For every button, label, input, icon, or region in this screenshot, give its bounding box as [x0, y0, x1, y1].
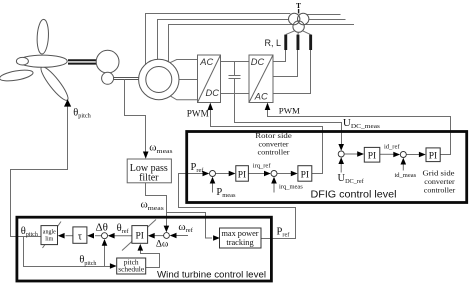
blade B2 (left)	[0, 68, 34, 83]
PI controller PI4	[426, 148, 440, 162]
svg-text:Wind turbine control level: Wind turbine control level	[157, 270, 266, 281]
wire: theta_pitch feedback from control box to blade pitch actuator	[11, 104, 68, 237]
summing junction S6 speed error	[164, 233, 170, 239]
time constant block tau	[73, 227, 87, 243]
arrow S3 to PI3	[357, 151, 364, 157]
svg-text:filter: filter	[139, 172, 159, 183]
arrow P_ref into S1	[203, 171, 210, 177]
svg-text:AC: AC	[199, 57, 213, 67]
PI controller PI5 pitch	[132, 226, 148, 244]
svg-text:DC: DC	[251, 57, 265, 67]
choke L3	[309, 35, 312, 50]
arrow theta_ref into S5	[108, 233, 115, 239]
blade B1 (top)	[36, 19, 49, 54]
summing junction S3 DC voltage	[338, 151, 344, 157]
DFIG control level box	[187, 132, 467, 203]
wire: pitch feedback line and branch to S5	[24, 237, 111, 267]
wire: grid phase b right bus	[309, 19, 346, 21]
summing junction S1 power	[210, 171, 216, 177]
wire: stator phase c to transformer	[169, 25, 294, 63]
arrow id_meas into S4	[401, 158, 407, 165]
summing junction S4 grid current	[400, 152, 406, 158]
arrow feedback into pitch schedule	[110, 263, 117, 269]
wire: transformer to choke c	[303, 31, 311, 35]
wire: theta_ref PI5 to S5	[115, 235, 132, 237]
PI controller PI1	[236, 166, 249, 182]
wire: high speed shaft gearbox to generator	[112, 78, 140, 80]
arrow PI1 to S2	[264, 171, 271, 177]
svg-text:PI: PI	[301, 170, 309, 180]
svg-text:AC: AC	[254, 92, 268, 102]
wire: stator phase b to transformer	[158, 20, 289, 60]
summing junction S2 rotor current	[271, 171, 277, 177]
wire: grid phase a right bus	[307, 14, 340, 16]
max power tracking block	[220, 228, 262, 248]
low pass filter box	[127, 159, 171, 183]
svg-text:Δθ: Δθ	[96, 222, 108, 234]
gearbox wheel small	[102, 72, 114, 84]
arrow into low pass filter	[143, 152, 149, 159]
svg-text:irq_meas: irq_meas	[279, 184, 303, 191]
svg-text:T: T	[296, 1, 301, 10]
wire: PI1 to S2	[248, 173, 265, 175]
wire: PI3 to S4	[380, 153, 395, 155]
arrow S5 to tau	[87, 233, 94, 239]
arrow pitch feedback into S5	[102, 239, 108, 246]
arrow U_DC_meas into S3	[338, 144, 344, 151]
svg-text:PWM: PWM	[187, 109, 209, 119]
transformer T circle 2	[298, 13, 309, 24]
svg-text:irq_ref: irq_ref	[253, 162, 272, 169]
svg-text:PI: PI	[429, 151, 437, 161]
converter U1 AC/DC rotor side	[198, 55, 221, 103]
wire: speed sensor tap to low pass filter	[125, 80, 146, 154]
wire: transformer to choke a	[286, 31, 295, 35]
capacitor C DC-link	[229, 62, 241, 94]
wire: S6 to PI5 pitch controller	[155, 235, 164, 237]
wire: PWM command from rotor side controller PI2 to U1	[211, 108, 323, 174]
blade B3 (bottom)	[38, 64, 72, 103]
converter U2 DC/AC grid side	[249, 55, 273, 103]
svg-text:angle: angle	[43, 230, 56, 236]
wire: rotor phase c to converter U1	[171, 96, 198, 100]
summing junction S5 pitch angle	[102, 233, 108, 239]
wire: irq_meas stub into S2	[273, 182, 275, 193]
generator rotor	[146, 67, 172, 93]
svg-text:controller: controller	[424, 185, 456, 194]
arrow U_DC_ref into S3	[338, 157, 344, 164]
generator stator	[139, 59, 179, 99]
svg-text:PI: PI	[368, 152, 376, 162]
arrow tau to angle lim	[58, 233, 65, 239]
wire: filtered speed to S6 and max power tracking	[146, 183, 213, 238]
wire: S2 to PI2	[277, 173, 292, 175]
arrow omega into max power tracking	[213, 235, 220, 241]
arrow gain schedule into PI5 bottom	[138, 244, 144, 251]
wire: S3 to PI3	[344, 153, 358, 155]
wire: rotor phase a to converter U1	[170, 60, 198, 63]
wire: P_ref from max power tracking to S1	[179, 174, 296, 239]
transformer T circle 3	[293, 21, 304, 32]
Wind turbine control level box	[17, 217, 272, 281]
gearbox wheel large	[96, 50, 119, 73]
gain schedule diagonal through PI5	[122, 220, 156, 251]
wire: U_DC_ref stub into S3	[340, 162, 342, 173]
saturation block angle lim	[41, 226, 58, 245]
arrow omega_ref into S6	[170, 233, 177, 239]
pitch schedule block	[117, 257, 146, 274]
wire: grid phase c right bus	[304, 24, 354, 26]
arrow PWM into U2	[265, 103, 271, 110]
svg-text:τ: τ	[78, 232, 82, 243]
wire: U_DC measurement line to S3	[235, 94, 342, 147]
svg-text:DC: DC	[206, 88, 220, 98]
wire: id_meas stub into S4	[402, 162, 404, 171]
arrow omega_meas into S6	[164, 226, 170, 233]
wire: stator phase a to transformer	[146, 14, 291, 66]
svg-text:id_ref: id_ref	[384, 144, 400, 151]
wire: tau to angle lim	[66, 235, 73, 237]
arrow: theta_pitch to blade	[64, 99, 71, 106]
wire: P_meas stub into S1	[212, 182, 214, 193]
PI controller PI3	[364, 147, 380, 162]
arrow S2 to PI2	[291, 171, 298, 177]
wire: PWM command from grid side controller PI4 to U2	[268, 108, 451, 155]
svg-text:id_meas: id_meas	[395, 172, 417, 179]
arrow PWM into U1	[208, 103, 214, 110]
wire: S4 to PI4	[406, 154, 420, 156]
wire: pitch schedule gain output loop to PI5 bottom	[141, 251, 160, 268]
nose cone	[16, 57, 28, 65]
choke L2	[297, 35, 300, 50]
svg-text:DFIG control level: DFIG control level	[311, 190, 397, 201]
wire: choke c to converter U2	[273, 50, 311, 94]
arrow delta_omega into PI5	[148, 233, 155, 239]
wire: choke a to converter U2	[273, 50, 286, 62]
svg-text:Δω: Δω	[156, 240, 168, 250]
svg-text:tracking: tracking	[226, 238, 253, 247]
wire: transformer to choke b	[297, 32, 300, 34]
wire: rotor phase b to converter U1	[179, 79, 198, 81]
svg-text:PWM: PWM	[279, 106, 300, 116]
hub	[18, 55, 67, 67]
svg-text:PI: PI	[238, 170, 246, 180]
wire: choke b to converter U2	[273, 50, 298, 77]
wire: main shaft hub to gearbox	[68, 60, 97, 63]
wire: S1 to PI1	[216, 173, 230, 175]
PI controller PI2	[298, 166, 312, 182]
choke L1	[284, 35, 287, 50]
wire: DC bus negative rail	[221, 93, 250, 95]
transformer T circle 1	[289, 13, 300, 24]
gain schedule diagonal through angle lim	[43, 222, 62, 249]
wire: S5 to tau block	[95, 235, 102, 237]
svg-text:PI: PI	[135, 231, 143, 241]
wire: DC bus positive rail	[221, 61, 250, 63]
arrow P_meas into S1	[210, 177, 216, 184]
arrow irq_meas into S2	[271, 177, 277, 184]
svg-text:controller: controller	[258, 148, 290, 157]
arrow S4 to PI4	[419, 152, 426, 158]
wire: omega_ref stub into S6	[177, 235, 189, 237]
arrow PI3 to S4	[393, 152, 400, 158]
svg-text:R, L: R, L	[265, 38, 282, 48]
svg-text:schedule: schedule	[118, 265, 145, 274]
svg-text:lim: lim	[45, 237, 53, 243]
arrow S1 to PI1	[229, 171, 236, 177]
